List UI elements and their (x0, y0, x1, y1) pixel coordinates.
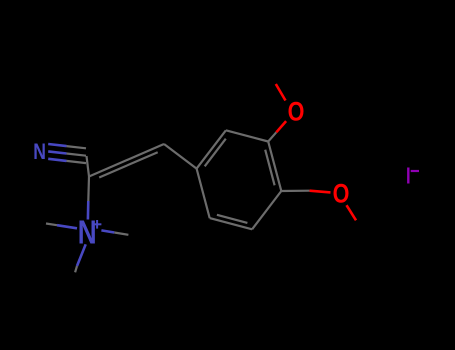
iodide minus sign (411, 170, 419, 172)
ring edge R-LR (252, 191, 281, 229)
bond ring R to O2 (red half) (310, 191, 331, 193)
nitrile N label (33, 140, 46, 164)
ring edge UR-R (268, 142, 281, 192)
bond nitrile C to quaternary C (87, 156, 90, 177)
bond quaternary C to N+ (blue half) (87, 201, 90, 220)
N+ label (78, 215, 97, 252)
benzene ring (197, 130, 282, 229)
ring edge LR-LL (210, 218, 252, 229)
N+ lower-left methyl bond (gray half) (75, 266, 77, 272)
svg-text:N: N (33, 140, 46, 164)
N+ right methyl bond (blue half) (101, 230, 114, 232)
ring inner double line LR-LL (217, 215, 248, 223)
ring edge UL-UR (226, 130, 268, 141)
N+ left methyl bond (gray half) (46, 224, 57, 226)
vinyl double bond C*=CH main line (89, 144, 164, 177)
svg-text:O: O (288, 97, 305, 127)
svg-text:I: I (406, 164, 411, 189)
nitrile triple bond (blue half) (48, 144, 66, 161)
O2 label (methoxy oxygen right) (333, 179, 350, 209)
bond ring UR to O1 (gray half) (268, 132, 276, 141)
nitrile triple bond (carbon half, gray) (67, 146, 87, 163)
bond CH to ring L vertex (164, 144, 197, 169)
N+ right methyl bond (gray half) (114, 233, 128, 235)
iodide I label (406, 164, 411, 189)
bond ring UR to O1 (red half) (276, 121, 286, 132)
ring edge LL-L (197, 169, 210, 219)
plus sign of N+ (93, 220, 102, 229)
O1 label (methoxy oxygen top) (288, 97, 305, 127)
svg-text:O: O (333, 179, 350, 209)
bond O2 to its methyl (red) (347, 205, 357, 220)
ring inner double line UR-R (265, 150, 274, 186)
N+ lower-left methyl bond (blue half) (77, 244, 86, 266)
bond ring R to O2 (gray half) (281, 190, 309, 193)
ring edge L-UL (197, 130, 226, 168)
svg-text:N: N (78, 215, 97, 252)
vinyl double bond inner line (99, 152, 158, 177)
ring inner double line L-UL (205, 139, 226, 167)
bond O1 to its methyl (red) (276, 84, 286, 101)
bond quaternary C to N+ (gray half) (87, 177, 90, 202)
N+ left methyl bond (blue half) (57, 225, 77, 228)
